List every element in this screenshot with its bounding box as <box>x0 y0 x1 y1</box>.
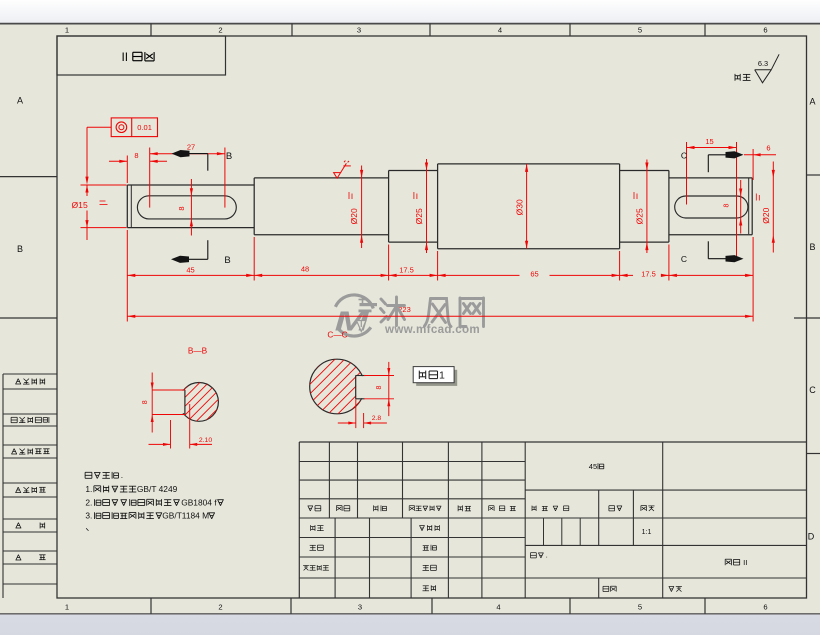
svg-text:1.: 1. <box>85 484 92 494</box>
svg-text:.: . <box>121 470 123 480</box>
tooltip sheet1 <box>416 370 457 386</box>
svg-text:1:1: 1:1 <box>642 529 652 536</box>
svg-text:8: 8 <box>376 385 383 389</box>
surface roughness 6.3 general note <box>755 54 779 83</box>
svg-text:17.5: 17.5 <box>399 265 414 274</box>
svg-text:.: . <box>546 552 548 560</box>
svg-text:8: 8 <box>134 151 138 160</box>
svg-text:C—C: C—C <box>327 330 347 340</box>
svg-text:6: 6 <box>766 143 770 152</box>
dimension dia25 right <box>646 160 648 254</box>
svg-text:1: 1 <box>65 26 69 35</box>
svg-text:II: II <box>743 558 747 567</box>
svg-text:Ø20: Ø20 <box>349 208 359 224</box>
svg-text:D: D <box>808 532 815 542</box>
svg-text:2.: 2. <box>85 497 92 507</box>
dimension 8 keyway position <box>126 156 128 184</box>
mfcad watermark logo <box>335 295 373 309</box>
section cutting plane B-B <box>207 154 209 171</box>
svg-text:5: 5 <box>638 26 642 35</box>
surface roughness symbol on dia20 <box>334 161 351 179</box>
title block <box>299 441 806 443</box>
svg-text:6.3: 6.3 <box>758 59 768 68</box>
keyway slots on dia15 and right dia20 sections <box>137 196 236 219</box>
svg-text:2.10: 2.10 <box>199 437 212 444</box>
left edge attachment blocks <box>3 373 57 375</box>
svg-text:27: 27 <box>187 143 195 152</box>
dimension 15 right keyway <box>686 142 688 205</box>
dimension 8 keyway width left <box>190 179 192 236</box>
svg-text:B: B <box>17 244 23 254</box>
top-left part-name box (rotated 180) <box>57 36 226 75</box>
svg-text:5: 5 <box>638 603 642 612</box>
dimension dia30 <box>526 164 528 249</box>
svg-text:2.8: 2.8 <box>372 415 382 422</box>
svg-text:A: A <box>809 97 815 107</box>
right border zone letters A B C D <box>807 174 820 176</box>
concentricity tolerance frame 0.01 <box>111 118 157 137</box>
svg-text:3: 3 <box>357 26 361 35</box>
svg-text:48: 48 <box>301 265 309 274</box>
dimension chain 45 48 17.5 65 17.5 <box>126 230 128 322</box>
bottom border zone ticks and numbers 1-6 <box>150 598 152 614</box>
svg-text:B: B <box>224 255 230 266</box>
svg-text:C: C <box>809 385 816 395</box>
svg-text:Ø30: Ø30 <box>514 199 524 215</box>
svg-text:2: 2 <box>218 603 222 612</box>
svg-text:B—B: B—B <box>188 345 208 355</box>
dimension dia20 <box>361 166 363 249</box>
svg-text:4: 4 <box>498 26 502 35</box>
dimension 8 keyway width right <box>740 180 742 234</box>
svg-text:C: C <box>681 150 687 160</box>
technical requirements text <box>85 472 92 478</box>
svg-text:0.01: 0.01 <box>137 123 152 132</box>
svg-text:www.mfcad.com: www.mfcad.com <box>384 323 480 336</box>
svg-text:2: 2 <box>218 26 222 35</box>
overall dimension line 223 <box>127 315 753 317</box>
svg-text:6: 6 <box>763 26 767 35</box>
bottom window band <box>0 614 820 635</box>
svg-text:GB/T 4249: GB/T 4249 <box>137 484 178 494</box>
svg-text:65: 65 <box>530 270 538 279</box>
svg-text:17.5: 17.5 <box>641 270 656 279</box>
svg-text:45: 45 <box>589 462 597 471</box>
svg-text:4: 4 <box>496 603 500 612</box>
svg-text:Ø15: Ø15 <box>72 200 88 210</box>
section cutting plane C-C <box>707 155 709 172</box>
svg-text:Ø20: Ø20 <box>761 207 771 223</box>
svg-text:8: 8 <box>142 400 149 404</box>
svg-text:C: C <box>681 254 687 264</box>
svg-text:45: 45 <box>186 265 194 274</box>
svg-text:GB/T1184 M: GB/T1184 M <box>162 511 209 521</box>
svg-text:GB1804 f: GB1804 f <box>181 497 217 507</box>
top window band <box>0 0 820 24</box>
svg-text:B: B <box>226 151 232 162</box>
svg-text:3.: 3. <box>85 511 92 521</box>
svg-text:3: 3 <box>358 603 362 612</box>
dimension 27 keyway length <box>224 148 226 208</box>
svg-text:B: B <box>809 242 815 252</box>
svg-text:A: A <box>17 96 23 106</box>
svg-text:8: 8 <box>177 206 186 210</box>
svg-text:15: 15 <box>705 137 713 146</box>
svg-text:1: 1 <box>439 369 445 381</box>
svg-text:6: 6 <box>763 603 767 612</box>
left border zone letters A B <box>0 176 57 178</box>
svg-text:Ø25: Ø25 <box>634 208 644 224</box>
top border zone ticks and numbers 1-6 <box>150 24 152 36</box>
dimension dia20 right <box>772 162 774 253</box>
dimension 6 right end <box>752 149 754 180</box>
svg-text:1: 1 <box>65 603 69 612</box>
dimension dia15 <box>81 184 127 186</box>
svg-text:8: 8 <box>724 203 731 207</box>
shaft outline: 6 stepped sections dia15/20/25/30/25/20 <box>126 185 128 228</box>
dimension dia25 <box>426 159 428 253</box>
svg-text:II: II <box>122 50 128 62</box>
svg-text:Ø25: Ø25 <box>414 208 424 224</box>
